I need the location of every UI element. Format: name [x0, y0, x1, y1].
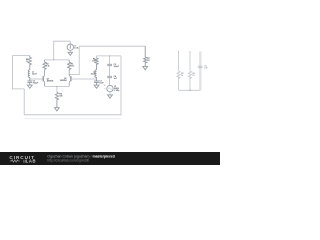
capacitor C5: [198, 66, 203, 67]
wire box top: [97, 55, 122, 57]
wire rail to current source: [54, 41, 71, 60]
svg-text:2N3904: 2N3904: [60, 79, 68, 82]
svg-text:1k: 1k: [192, 75, 195, 77]
wire collector Q2 tap riser: [69, 46, 79, 74]
ground below R7: [143, 66, 148, 69]
capacitor C4: [107, 76, 112, 77]
wire feedback left vertical: [12, 56, 24, 115]
resistor R1: [28, 56, 31, 70]
junction dot right rail: [189, 90, 191, 92]
ground below C2: [94, 85, 99, 88]
ground below I1: [68, 52, 72, 55]
ground below C1: [27, 85, 32, 88]
wire v2 lower: [109, 78, 111, 86]
main labels: [26, 45, 151, 97]
svg-text:1.1k: 1.1k: [46, 65, 51, 67]
wire v1 upper: [96, 56, 98, 58]
inductor L2: [95, 70, 97, 79]
resistor R3: [68, 60, 71, 70]
wire v2 upper: [109, 56, 111, 64]
svg-text:1 10k): 1 10k): [114, 90, 120, 92]
resistor R7: [144, 46, 147, 66]
inductor L1: [28, 70, 30, 79]
capacitor C3: [107, 64, 112, 65]
ground below R4: [55, 108, 60, 111]
wire collector top: [45, 59, 70, 61]
transistor Q1: [42, 76, 44, 81]
wire branch B: [189, 52, 191, 91]
wire terminal ticks: [179, 51, 190, 52]
svg-text:10uF: 10uF: [99, 83, 104, 85]
svg-text:10k: 10k: [59, 95, 63, 97]
resistor R6b: [188, 71, 191, 78]
resistor R6: [95, 58, 98, 70]
resistor R4 tail: [55, 92, 58, 107]
svg-text:10uH: 10uH: [91, 73, 96, 75]
wire v2 mid: [109, 66, 111, 77]
capacitor C1: [27, 79, 32, 85]
svg-text:1uF: 1uF: [204, 68, 208, 70]
right sub-circuit: [177, 52, 200, 91]
ground below V1: [108, 95, 113, 98]
wire bottom rail: [24, 56, 121, 115]
wire rail right: [79, 45, 145, 47]
current source arrowhead: [70, 48, 72, 49]
transistor Q2: [70, 76, 72, 81]
svg-text:100pF: 100pF: [33, 83, 39, 85]
faint separator line: [24, 118, 121, 120]
wire left top: [12, 55, 29, 57]
resistor R5: [177, 71, 180, 78]
wire bottom right rail: [179, 89, 201, 91]
footer text: [47, 154, 115, 162]
svg-text:1mA: 1mA: [74, 46, 79, 49]
wire highlighted branch C: [199, 52, 201, 91]
svg-text:1.1k: 1.1k: [71, 65, 76, 67]
svg-text:100pF: 100pF: [114, 66, 120, 68]
wire base Q2: [71, 78, 97, 80]
svg-text:LAB: LAB: [26, 159, 36, 164]
right sub-circuit labels: [181, 66, 208, 77]
resistor R2: [43, 60, 46, 70]
svg-text:50: 50: [147, 60, 150, 62]
footer bar: [0, 152, 220, 165]
current source I1: [67, 44, 73, 50]
svg-text:10uH: 10uH: [32, 73, 37, 75]
junction dots: [29, 55, 110, 87]
svg-text:2N3904: 2N3904: [47, 80, 55, 83]
CircuitLab logo: [9, 155, 36, 164]
svg-text:1uF: 1uF: [114, 78, 118, 80]
svg-text:http://circuitlab.com/c/grkd3b: http://circuitlab.com/c/grkd3b: [47, 158, 89, 162]
capacitor C2: [94, 79, 99, 85]
wire branch A: [178, 52, 180, 91]
wire tail: [56, 86, 58, 92]
svg-text:1k: 1k: [181, 75, 184, 77]
wire emitter rail: [45, 85, 70, 87]
voltage source V1: [104, 84, 106, 86]
wire base Q1: [30, 78, 43, 80]
